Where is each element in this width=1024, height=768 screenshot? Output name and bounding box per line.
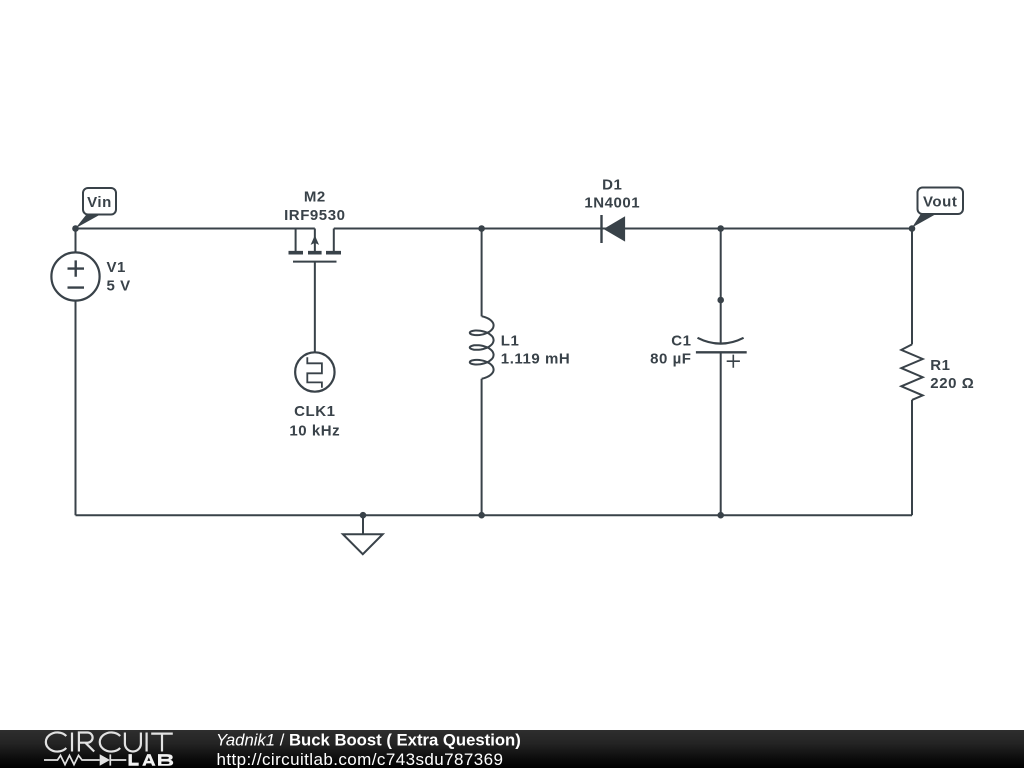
wire top right: M2 to Vout node <box>334 228 912 230</box>
node C1 top junction dot <box>717 225 724 232</box>
wire bottom rail <box>76 514 913 516</box>
svg-text:Vin: Vin <box>87 194 112 211</box>
svg-text:1.119 mH: 1.119 mH <box>501 351 570 368</box>
svg-text:220 Ω: 220 Ω <box>930 375 974 392</box>
svg-text:IRF9530: IRF9530 <box>284 207 345 224</box>
svg-text:C1: C1 <box>671 333 691 350</box>
node L1 bottom junction dot <box>478 512 485 519</box>
diode D1 <box>602 215 626 243</box>
wire L1 top <box>481 229 483 317</box>
wire top left: Vin node to M2 <box>76 228 315 230</box>
svg-text:Vout: Vout <box>923 193 957 210</box>
voltage source V1 <box>51 252 99 300</box>
svg-text:80 µF: 80 µF <box>650 351 691 368</box>
inductor L1 <box>470 316 494 378</box>
svg-text:CLK1: CLK1 <box>294 403 335 420</box>
wire R1 top <box>911 229 913 345</box>
svg-text:http://circuitlab.com/c743sdu7: http://circuitlab.com/c743sdu787369 <box>217 750 504 768</box>
wire C1 top <box>720 229 722 343</box>
wire L1 bottom <box>481 379 483 516</box>
node Vin label box <box>76 188 117 228</box>
wire C1 bottom <box>720 352 722 515</box>
svg-text:V1: V1 <box>107 259 126 276</box>
svg-text:1N4001: 1N4001 <box>584 195 640 212</box>
svg-text:D1: D1 <box>602 177 622 194</box>
node Vout label box <box>912 188 963 228</box>
footer bar <box>0 730 1024 768</box>
svg-text:M2: M2 <box>304 189 326 206</box>
svg-text:L1: L1 <box>501 333 520 350</box>
wire M2 gate to CLK1 <box>314 262 316 353</box>
wire R1 bottom <box>911 400 913 515</box>
node C1 terminal junction dot <box>717 297 724 304</box>
logo LAB <box>129 754 174 766</box>
svg-text:Yadnik1 / Buck Boost ( Extra Q: Yadnik1 / Buck Boost ( Extra Question) <box>216 730 521 749</box>
transistor M2 (PMOS) <box>289 229 342 262</box>
wire left: Vin node down to V1 <box>75 229 77 253</box>
node L1 top junction dot <box>478 225 485 232</box>
svg-text:10 kHz: 10 kHz <box>289 423 340 440</box>
svg-text:5 V: 5 V <box>107 277 131 294</box>
resistor R1 <box>901 344 922 400</box>
wire left: V1 to bottom rail <box>75 301 77 516</box>
clock source CLK1 <box>295 352 334 391</box>
logo squiggle resistor diode <box>44 754 126 765</box>
node Vout junction dot <box>909 225 916 232</box>
node Vin junction dot <box>72 225 79 232</box>
node C1 bottom junction dot <box>717 512 724 519</box>
capacitor C1 <box>696 338 747 368</box>
svg-text:R1: R1 <box>930 357 950 374</box>
logo CIRCUIT <box>46 732 173 751</box>
logo diode triangle <box>100 754 110 765</box>
ground <box>343 512 383 554</box>
